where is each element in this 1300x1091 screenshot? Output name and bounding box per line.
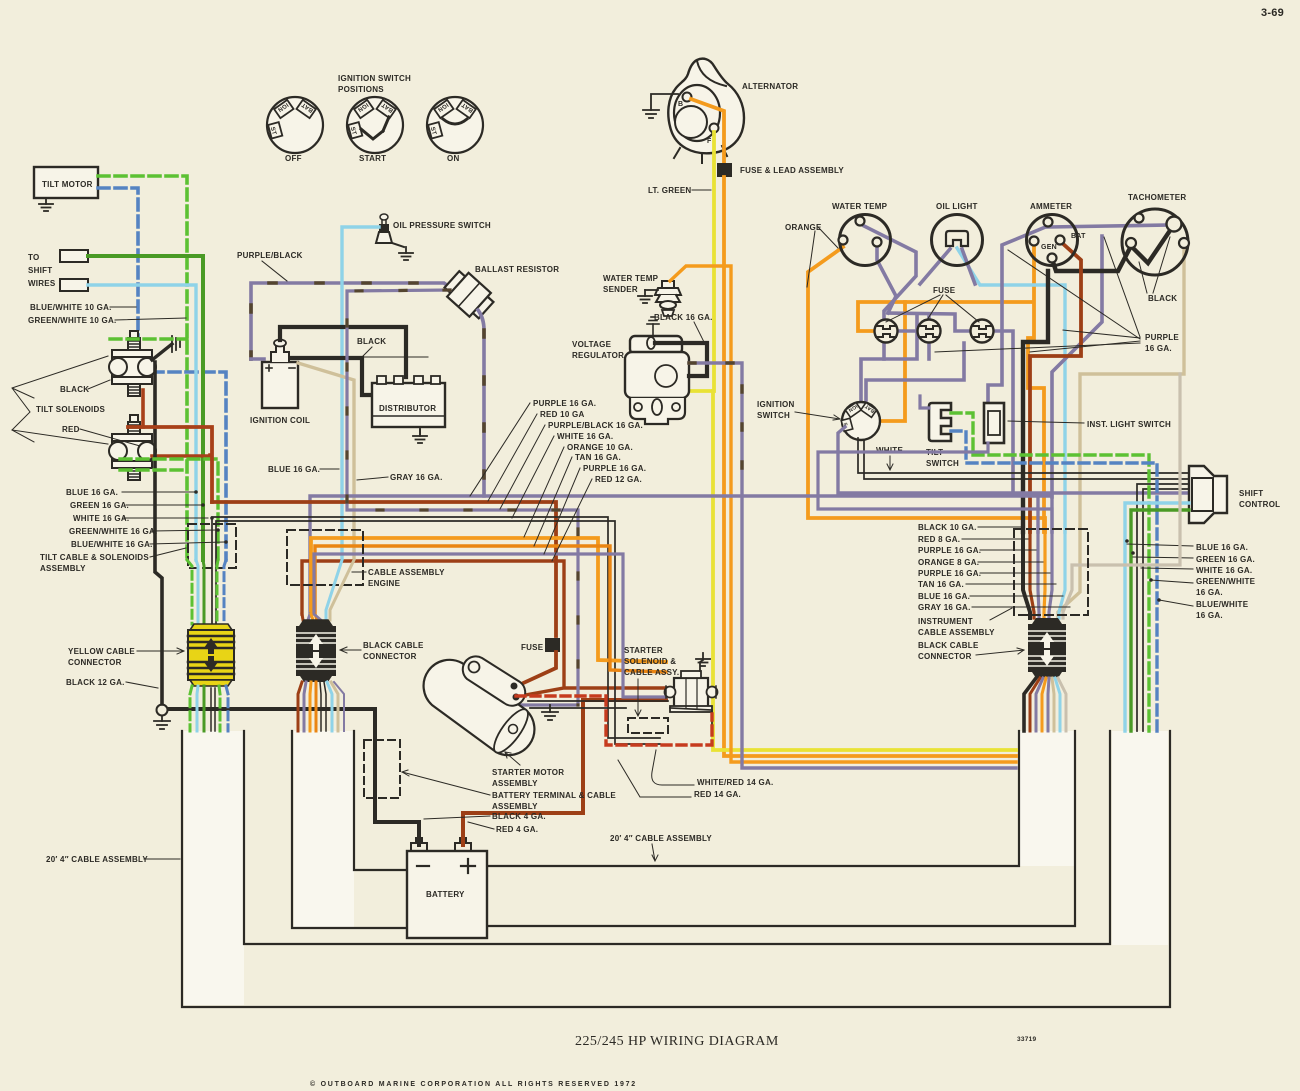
svg-text:SWITCH: SWITCH [926, 459, 959, 468]
wire orange second run [315, 546, 666, 672]
label starter solenoid [624, 646, 679, 716]
label red tilt solenoid [62, 425, 140, 446]
wire white 16ga pair run [212, 517, 660, 744]
wire white pair drop to shift cable [1137, 484, 1189, 731]
dashed box cable assembly engine [287, 530, 363, 585]
svg-text:BLACK: BLACK [1148, 294, 1177, 303]
cable outline C to battery left lower [292, 731, 407, 928]
svg-text:FUSE & LEAD ASSEMBLY: FUSE & LEAD ASSEMBLY [740, 166, 844, 175]
svg-text:GREEN/WHITE: GREEN/WHITE [1196, 577, 1256, 586]
label blue 16ga mid [268, 465, 339, 474]
wire orange from alternator B [691, 99, 724, 163]
starter solenoid ground [700, 660, 703, 671]
dashed box tilt cable assembly [188, 524, 236, 568]
dashed box starter solenoid cable assy [628, 718, 668, 733]
tilt solenoid 1 ground wire [152, 344, 172, 360]
gauge tachometer [1122, 209, 1189, 275]
svg-text:ORANGE 8 GA.: ORANGE 8 GA. [918, 558, 979, 567]
svg-text:BLUE 16 GA.: BLUE 16 GA. [268, 465, 320, 474]
wire red 10ga run to fuse [212, 502, 556, 636]
dashed box instrument cable assembly [1014, 529, 1088, 615]
svg-text:ALTERNATOR: ALTERNATOR [742, 82, 798, 91]
label black tach [1139, 237, 1177, 303]
svg-text:GRAY 16 GA.: GRAY 16 GA. [918, 603, 971, 612]
cable outline B inner loop under battery [244, 731, 1110, 944]
wire green/white dashed tilt switch to shift cable [951, 413, 1149, 731]
svg-text:RED 10 GA: RED 10 GA [540, 410, 584, 419]
wire black coil top to distributor [280, 327, 406, 377]
label yellow cable connector [68, 647, 184, 667]
wire purple ignition to instrument run [838, 427, 1189, 532]
label black coil wire [357, 337, 428, 357]
label inst light switch [1008, 420, 1171, 429]
svg-text:BLUE 16 GA.: BLUE 16 GA. [1196, 543, 1248, 552]
label list instrument wires with leaders [918, 523, 1070, 612]
label black 12ga [66, 678, 158, 688]
svg-text:ON: ON [447, 154, 460, 163]
label list tilt wires with leaders [66, 488, 228, 549]
label battery terminal and cable assembly [402, 770, 616, 811]
label starter motor assembly [492, 752, 564, 788]
shift wire terminal box 1 [60, 250, 88, 262]
svg-text:STARTER MOTOR: STARTER MOTOR [492, 768, 564, 777]
instrument connector wires fan out [1024, 678, 1066, 731]
svg-text:RED 4 GA.: RED 4 GA. [496, 825, 538, 834]
svg-text:SHIFT: SHIFT [28, 266, 52, 275]
svg-text:INST. LIGHT SWITCH: INST. LIGHT SWITCH [1087, 420, 1171, 429]
svg-text:ENGINE: ENGINE [368, 579, 401, 588]
svg-text:BALLAST RESISTOR: BALLAST RESISTOR [475, 265, 559, 274]
starter motor assembly [424, 656, 535, 757]
wire green/white dashed branch solenoid1 [110, 337, 187, 340]
svg-text:FUSE: FUSE [521, 643, 544, 652]
svg-text:3-69: 3-69 [1261, 7, 1284, 19]
wire white/red dashed assembly [516, 696, 712, 745]
svg-text:IGNITION: IGNITION [757, 400, 795, 409]
wire purple fuse1 lower stub [882, 342, 886, 359]
svg-text:TILT CABLE & SOLENOIDS: TILT CABLE & SOLENOIDS [40, 553, 149, 562]
svg-text:PURPLE 16 GA.: PURPLE 16 GA. [918, 546, 981, 555]
label instrument cable assembly [918, 608, 1012, 637]
wire white pair ignition S to shift control [858, 438, 1189, 479]
svg-text:INSTRUMENT: INSTRUMENT [918, 617, 973, 626]
label cable assembly engine [352, 568, 445, 588]
svg-text:YELLOW CABLE: YELLOW CABLE [68, 647, 135, 656]
wire yellow lt green from alternator F [689, 132, 714, 391]
label fuse with leaders [886, 286, 979, 322]
wire purple/black to ballast and coil [251, 283, 455, 359]
svg-text:GEN: GEN [1041, 244, 1057, 251]
label black 4ga [424, 812, 546, 821]
svg-text:CONNECTOR: CONNECTOR [918, 652, 972, 661]
wire purple fuse3 lower loop [866, 343, 964, 400]
svg-text:AMMETER: AMMETER [1030, 202, 1072, 211]
svg-text:BLACK: BLACK [357, 337, 386, 346]
svg-text:ORANGE: ORANGE [785, 223, 822, 232]
svg-text:PURPLE 16 GA.: PURPLE 16 GA. [583, 464, 646, 473]
svg-text:GREEN 16 GA.: GREEN 16 GA. [70, 501, 129, 510]
svg-text:WATER TEMP: WATER TEMP [832, 202, 888, 211]
engine connector wires fan out [298, 682, 344, 731]
svg-text:16 GA.: 16 GA. [1196, 588, 1223, 597]
svg-text:START: START [359, 154, 386, 163]
svg-text:CONNECTOR: CONNECTOR [363, 652, 417, 661]
engine black connector wires fan in [302, 554, 354, 620]
svg-text:WHITE 16 GA.: WHITE 16 GA. [557, 432, 613, 441]
svg-text:DISTRIBUTOR: DISTRIBUTOR [379, 404, 436, 413]
wire red between solenoids [141, 390, 145, 427]
wire red tilt down to yellow connector [128, 427, 212, 502]
wire black from solenoid2 down to ground junction [155, 362, 162, 704]
svg-text:SOLENOID &: SOLENOID & [624, 657, 676, 666]
wire green/white dashed branch solenoid2 [120, 459, 218, 560]
cable outline A outer loop [182, 731, 1170, 1007]
svg-text:TACHOMETER: TACHOMETER [1128, 193, 1186, 202]
svg-text:VOLTAGE: VOLTAGE [572, 340, 612, 349]
label gray 16ga [357, 473, 443, 482]
cable outline F battery right lower to instrument bar [487, 731, 1075, 926]
wire purple fuse jumper 1-2 [898, 329, 917, 333]
svg-text:ASSEMBLY: ASSEMBLY [40, 564, 86, 573]
wire orange from sender [670, 266, 1016, 762]
label lt green [648, 186, 711, 195]
label black cable connector instrument [918, 641, 1024, 661]
svg-text:ORANGE 10 GA.: ORANGE 10 GA. [567, 443, 633, 452]
label orange with leaders [785, 223, 838, 287]
label tilt cable and solenoids assembly [40, 548, 186, 573]
svg-text:BATTERY: BATTERY [426, 890, 465, 899]
label red 4ga [468, 822, 538, 834]
svg-text:20′ 4″ CABLE ASSEMBLY: 20′ 4″ CABLE ASSEMBLY [46, 855, 148, 864]
wire green to shift cable [1131, 510, 1189, 731]
svg-text:BLUE 16 GA.: BLUE 16 GA. [66, 488, 118, 497]
wire blue 16ga cyan from shift box2 [88, 285, 196, 560]
svg-text:OIL LIGHT: OIL LIGHT [936, 202, 978, 211]
water temp sender [645, 281, 681, 316]
wire orange water temp to instrument bundle [808, 247, 1045, 532]
20ft cable bar2 interior (engine) [294, 731, 354, 928]
svg-text:BLACK CABLE: BLACK CABLE [363, 641, 424, 650]
svg-text:OFF: OFF [285, 154, 302, 163]
wire brown red12ga engine run [302, 561, 666, 696]
fuse 3 [971, 320, 994, 343]
svg-text:20′ 4″ CABLE ASSEMBLY: 20′ 4″ CABLE ASSEMBLY [610, 834, 712, 843]
engine black cable connector [296, 620, 336, 682]
svg-text:WHITE 16 GA.: WHITE 16 GA. [73, 514, 129, 523]
wire cyan to shift cable [1125, 503, 1189, 731]
svg-text:POSITIONS: POSITIONS [338, 85, 384, 94]
cable outline E battery right to instrument bar [487, 731, 1019, 866]
svg-text:WHITE/RED 14 GA.: WHITE/RED 14 GA. [697, 778, 773, 787]
svg-text:WIRES: WIRES [28, 279, 56, 288]
tilt motor ground [39, 198, 53, 211]
wire black coil to distributor left [292, 358, 372, 395]
svg-text:16 GA.: 16 GA. [1196, 611, 1223, 620]
svg-text:CONTROL: CONTROL [1239, 500, 1280, 509]
instrument cable bundle verticals [1023, 374, 1180, 618]
wire purple tachometer diagonals [994, 225, 1171, 497]
label ignition switch [757, 400, 840, 420]
svg-text:BAT: BAT [1071, 233, 1086, 240]
wire blue 16ga cyan oil pressure to engine connector [342, 227, 379, 560]
voltage regulator [625, 336, 689, 424]
svg-text:PURPLE 16 GA.: PURPLE 16 GA. [918, 569, 981, 578]
svg-text:BLUE/WHITE 10 GA.: BLUE/WHITE 10 GA. [30, 303, 112, 312]
wire purple water temp mid [877, 246, 896, 313]
svg-text:FUSE: FUSE [933, 286, 956, 295]
shift control [1189, 466, 1227, 523]
wire cyan oil light to instrument bundle [957, 248, 1065, 532]
shift wire terminal box 2 [60, 279, 88, 291]
svg-text:ASSEMBLY: ASSEMBLY [492, 779, 538, 788]
gauge ammeter [1027, 215, 1078, 266]
svg-text:BLACK CABLE: BLACK CABLE [918, 641, 979, 650]
wire orange ammeter GEN to fuse1 and down [858, 246, 1044, 532]
wire black 16ga regulator J [655, 343, 707, 376]
tilt solenoid 1 [109, 331, 156, 396]
label list shift wires [1125, 539, 1255, 620]
alternator [668, 59, 744, 163]
wire purple/black regulator to ignition [689, 363, 1016, 768]
wire orange ignition BAT riser [882, 302, 905, 421]
svg-text:GREEN 16 GA.: GREEN 16 GA. [1196, 555, 1255, 564]
label purple 16ga gauges with leaders [935, 237, 1179, 353]
dashed box battery terminal assembly [364, 740, 400, 798]
20ft cable bar4 interior (shift) [1112, 731, 1168, 945]
svg-text:F: F [707, 138, 712, 145]
label tilt solenoids [12, 356, 108, 444]
voltage regulator antenna [647, 317, 659, 336]
svg-text:REGULATOR: REGULATOR [572, 351, 624, 360]
svg-text:BLACK: BLACK [60, 385, 89, 394]
wire blue/white dashed tilt switch to shift cable [951, 431, 1157, 731]
wire purple fuse2 lower stub [927, 342, 931, 359]
yellow connector wires fan out to cable [190, 686, 228, 731]
battery positive red 4ga cable [463, 700, 666, 845]
svg-text:BATTERY TERMINAL & CABLE: BATTERY TERMINAL & CABLE [492, 791, 616, 800]
svg-text:PURPLE/BLACK 16 GA.: PURPLE/BLACK 16 GA. [548, 421, 643, 430]
label green/white 10ga [28, 316, 186, 325]
wire black tach ammeter zigzag to instrument bundle [1023, 229, 1171, 532]
svg-text:WHITE 16 GA.: WHITE 16 GA. [1196, 566, 1252, 575]
wire red from solenoid2 to main run [152, 455, 210, 456]
wire purple inst light switch lower [818, 443, 1052, 532]
wire red fuse to starter motor post [519, 652, 556, 685]
svg-text:225/245 HP WIRING DIAGRAM: 225/245 HP WIRING DIAGRAM [575, 1034, 779, 1049]
yellow cable connector wires fan in [187, 560, 226, 624]
instrument black cable connector [1028, 618, 1066, 678]
svg-text:PURPLE 16 GA.: PURPLE 16 GA. [533, 399, 596, 408]
label list engine cable wires with leaders [470, 399, 646, 561]
tilt motor box [34, 167, 98, 198]
wire yellow to instrument cable [713, 391, 1016, 750]
ignition coil [262, 340, 298, 409]
wire purple/black 16ga run [347, 290, 578, 720]
svg-text:PURPLE/BLACK: PURPLE/BLACK [237, 251, 303, 260]
svg-text:TILT MOTOR: TILT MOTOR [42, 180, 93, 189]
wire purple ballast long run to instrument [310, 496, 1052, 614]
svg-text:CABLE ASSY.: CABLE ASSY. [624, 668, 679, 677]
svg-text:GRAY 16 GA.: GRAY 16 GA. [390, 473, 443, 482]
distributor ground [419, 427, 421, 434]
svg-text:BLUE/WHITE: BLUE/WHITE [1196, 600, 1249, 609]
svg-text:TAN 16 GA.: TAN 16 GA. [918, 580, 964, 589]
svg-text:TO: TO [28, 253, 39, 262]
wire gray 16ga tan from coil [298, 363, 354, 560]
svg-text:BLACK 10 GA.: BLACK 10 GA. [918, 523, 977, 532]
svg-text:OIL PRESSURE SWITCH: OIL PRESSURE SWITCH [393, 221, 491, 230]
svg-text:ASSEMBLY: ASSEMBLY [492, 802, 538, 811]
svg-text:BLUE/WHITE 16 GA.: BLUE/WHITE 16 GA. [71, 540, 153, 549]
label 20ft cable assembly right [610, 834, 712, 861]
label purple/black [237, 251, 303, 281]
distributor [372, 376, 445, 427]
svg-text:16 GA.: 16 GA. [1145, 344, 1172, 353]
ignition position OFF [267, 97, 323, 153]
alternator ground [643, 94, 678, 118]
svg-text:SHIFT: SHIFT [1239, 489, 1263, 498]
label 20ft cable assembly left [46, 855, 180, 864]
label black cable connector engine [340, 641, 424, 661]
wire purple tilt switch stub [920, 396, 929, 408]
svg-text:BLACK 4 GA.: BLACK 4 GA. [492, 812, 546, 821]
engine ground junction [154, 705, 170, 730]
svg-text:BLACK 12 GA.: BLACK 12 GA. [66, 678, 125, 687]
ignition position START [347, 97, 403, 153]
svg-text:RED 8 GA.: RED 8 GA. [918, 535, 960, 544]
svg-text:TILT SOLENOIDS: TILT SOLENOIDS [36, 405, 106, 414]
wire purple bus to fuses [888, 313, 971, 331]
fuse and lead assembly block [717, 163, 732, 177]
label blue/white 10ga [30, 303, 136, 312]
svg-text:PURPLE: PURPLE [1145, 333, 1179, 342]
wire purple ammeter to inst light switch [988, 226, 1048, 403]
svg-text:SENDER: SENDER [603, 285, 638, 294]
svg-text:B: B [678, 101, 683, 108]
svg-text:CABLE ASSEMBLY: CABLE ASSEMBLY [918, 628, 995, 637]
ballast resistor [441, 267, 497, 322]
svg-text:IGNITION SWITCH: IGNITION SWITCH [338, 74, 411, 83]
svg-text:LT. GREEN: LT. GREEN [648, 186, 691, 195]
wire black starter motor to solenoid pair [528, 701, 712, 731]
label white [876, 446, 903, 470]
wire purple oil light diagonals [920, 249, 975, 284]
20ft cable bar1 interior (left, from yellow connector) [184, 731, 244, 1005]
svg-text:33719: 33719 [1017, 1036, 1036, 1043]
svg-text:© OUTBOARD MARINE CORPORATION: © OUTBOARD MARINE CORPORATION ALL RIGHTS… [310, 1080, 637, 1088]
svg-text:RED: RED [62, 425, 80, 434]
tilt switch [929, 403, 951, 441]
wire blue/white 10ga dashed from tilt motor [98, 188, 226, 560]
svg-text:IGNITION COIL: IGNITION COIL [250, 416, 310, 425]
svg-text:RED 12 GA.: RED 12 GA. [595, 475, 642, 484]
wire green/white 10ga dashed from tilt motor [98, 176, 187, 560]
starter solenoid [665, 671, 718, 712]
cable outline D to battery left upper [354, 731, 407, 870]
svg-text:GREEN/WHITE 16 GA.: GREEN/WHITE 16 GA. [69, 527, 158, 536]
svg-text:CONNECTOR: CONNECTOR [68, 658, 122, 667]
wire brown red8ga ammeter BAT to instrument bundle [1030, 242, 1081, 532]
inst light switch [984, 403, 1004, 443]
wire purple ignition IGN riser [861, 314, 917, 403]
wire purple/black ballast down to main run [478, 310, 484, 496]
wire orange 10ga ignition feed down [724, 177, 1016, 756]
label black tilt solenoid [60, 380, 110, 394]
ignition position ON [427, 97, 483, 153]
battery negative black 4ga cable [169, 709, 419, 845]
svg-text:WATER TEMP: WATER TEMP [603, 274, 659, 283]
gauge water temp [839, 215, 891, 266]
oil pressure switch [376, 214, 404, 247]
wire tan tachometer to instrument bundle [1058, 248, 1184, 618]
wire green 16ga solid from shift box1 [88, 256, 203, 560]
label red 14ga [618, 760, 741, 799]
tilt solenoid 2 [109, 415, 156, 480]
svg-text:RED 14 GA.: RED 14 GA. [694, 790, 741, 799]
svg-text:BLUE 16 GA.: BLUE 16 GA. [918, 592, 970, 601]
svg-text:STARTER: STARTER [624, 646, 663, 655]
svg-text:CABLE ASSEMBLY: CABLE ASSEMBLY [368, 568, 445, 577]
label black 16ga sender [654, 313, 713, 342]
starter motor terminals [511, 683, 518, 690]
20ft cable bar3 interior (instrument) [1019, 731, 1075, 866]
wire orange 10ga run [311, 538, 666, 662]
fuse block engine [545, 638, 560, 652]
wire purple water temp top zigzag to fuse1 [864, 226, 916, 321]
gauge oil light [932, 215, 983, 266]
svg-text:GREEN/WHITE 10 GA.: GREEN/WHITE 10 GA. [28, 316, 117, 325]
svg-text:BLACK 16 GA.: BLACK 16 GA. [654, 313, 713, 322]
fuse 1 [875, 320, 898, 343]
wire purple 16ga lower run [314, 554, 666, 697]
battery [407, 838, 487, 938]
svg-text:TAN 16 GA.: TAN 16 GA. [575, 453, 621, 462]
svg-text:SWITCH: SWITCH [757, 411, 790, 420]
yellow cable connector [188, 624, 234, 686]
label white/red 14ga [652, 750, 774, 787]
fuse 2 [918, 320, 941, 343]
ignition switch [841, 402, 880, 440]
